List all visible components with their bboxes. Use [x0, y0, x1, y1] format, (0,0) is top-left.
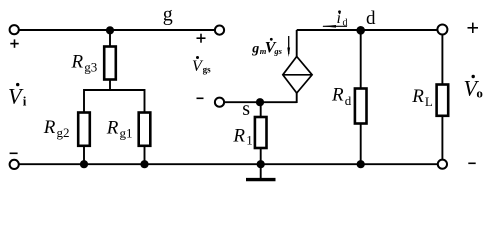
svg-text:R: R — [106, 118, 119, 139]
wire Rg3 bottom stub — [109, 80, 111, 91]
plus sign input — [10, 39, 18, 47]
label gmVgs — [251, 38, 282, 57]
svg-text:R: R — [232, 126, 245, 147]
junction dot R1 bottom — [257, 160, 265, 168]
svg-text:gs: gs — [273, 46, 282, 56]
plus sign gate — [197, 34, 206, 43]
svg-text:g: g — [163, 4, 173, 26]
wire Rg2 bottom stub — [83, 146, 85, 164]
label Rg2 — [43, 117, 70, 140]
wire Rd bottom stub — [360, 124, 362, 165]
svg-text:o: o — [476, 85, 483, 100]
label Vi — [8, 83, 27, 109]
label id — [337, 10, 348, 29]
svg-text:g3: g3 — [84, 59, 97, 74]
junction dot Rg2 bottom — [80, 160, 88, 168]
junction dot g node — [106, 26, 114, 34]
label Rg3 — [71, 51, 98, 74]
wire Rg3 top stub — [109, 30, 111, 47]
svg-text:g2: g2 — [57, 125, 70, 140]
resistor Rg2 — [78, 113, 90, 146]
ground — [246, 164, 276, 179]
svg-text:d: d — [345, 93, 352, 108]
svg-text:V: V — [8, 83, 24, 108]
svg-text:d: d — [366, 8, 376, 29]
label Rd — [331, 84, 352, 108]
current arrow id — [322, 25, 347, 28]
junction dot Rg1 bottom — [140, 160, 148, 168]
svg-text:s: s — [242, 98, 250, 120]
wire Rg2 Rg1 top bar — [84, 90, 145, 112]
svg-text:L: L — [425, 94, 433, 109]
resistor RL — [437, 85, 449, 116]
wire Rd top stub — [360, 30, 362, 89]
wire R1 bottom stub — [260, 148, 262, 164]
resistor Rg3 — [104, 47, 116, 80]
resistor Rd — [355, 89, 367, 124]
svg-text:g1: g1 — [120, 126, 133, 141]
terminal input bottom — [10, 160, 19, 169]
label Vo — [464, 75, 483, 101]
wire top-right rail d — [297, 29, 438, 31]
svg-text:1: 1 — [246, 133, 253, 148]
minus sign output — [468, 162, 475, 164]
svg-text:g: g — [251, 42, 259, 57]
svg-text:R: R — [43, 117, 56, 138]
wire R1 top stub — [260, 102, 262, 117]
wire s horizontal — [224, 101, 297, 103]
label R1 — [232, 126, 252, 148]
wire diamond top stub — [296, 30, 298, 57]
svg-text:i: i — [23, 94, 27, 109]
svg-text:d: d — [343, 17, 348, 28]
terminal output bottom — [438, 160, 447, 169]
current source direction arrow — [287, 36, 290, 57]
label Vgs — [192, 56, 211, 75]
svg-text:gs: gs — [203, 65, 212, 75]
label RL — [411, 86, 433, 109]
junction dot d node — [356, 26, 365, 35]
resistor Rg1 — [139, 113, 151, 146]
terminal input top — [10, 25, 19, 34]
wire top-left rail g — [19, 29, 216, 31]
plus sign output — [468, 23, 479, 33]
terminal output top — [437, 25, 447, 35]
terminal source — [215, 98, 224, 107]
minus sign source — [197, 97, 204, 99]
svg-text:R: R — [71, 51, 84, 72]
minus sign input — [10, 152, 18, 154]
junction dot s node — [256, 98, 264, 106]
controlled current source U1 diamond — [283, 57, 312, 94]
wire RL top stub — [441, 35, 443, 85]
terminal gate — [215, 26, 224, 35]
wire bottom rail — [19, 163, 438, 165]
label Rg1 — [106, 118, 133, 141]
junction dot Rd bottom — [357, 160, 365, 168]
wire Rg1 bottom stub — [144, 146, 146, 164]
resistor R1 — [255, 117, 267, 148]
wire RL bottom stub — [441, 116, 443, 160]
wire diamond bottom stub — [296, 93, 298, 104]
svg-text:R: R — [411, 86, 424, 107]
svg-text:R: R — [331, 84, 344, 105]
